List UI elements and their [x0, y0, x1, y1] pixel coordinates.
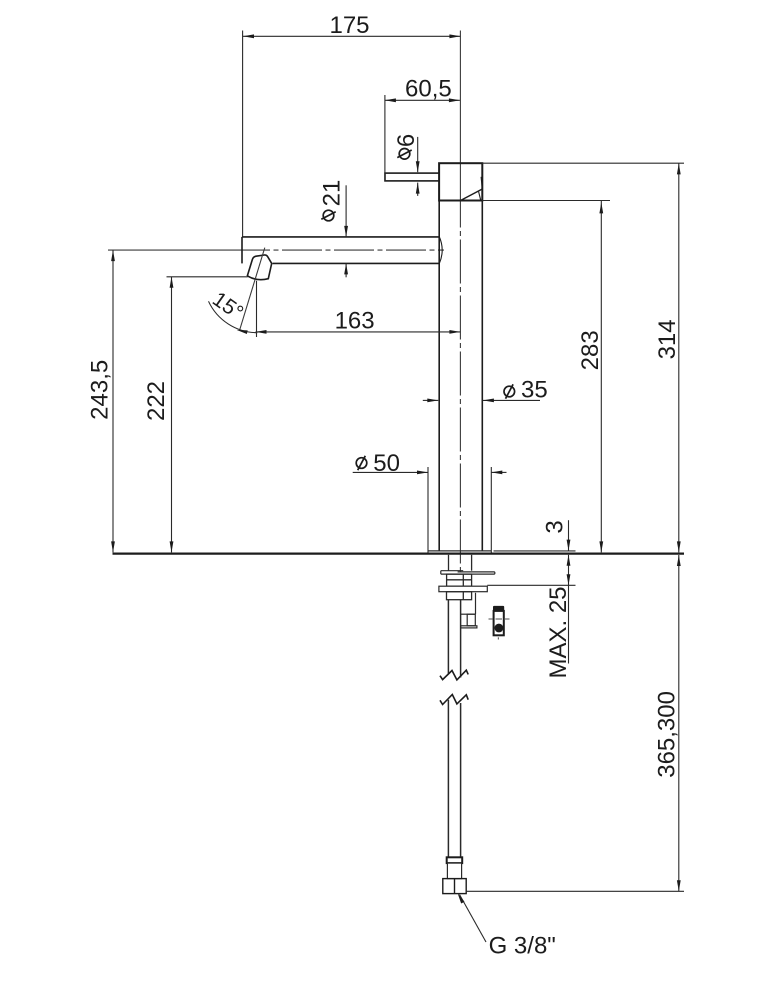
dimension 175	[243, 12, 461, 237]
head block U	[439, 163, 482, 200]
dimension diameter 21	[319, 180, 349, 278]
dimension 3	[494, 520, 576, 551]
mounting nut	[447, 574, 472, 586]
dimension 283	[482, 201, 610, 553]
dimension 60,5	[385, 75, 460, 181]
dimension 243,5	[87, 250, 115, 552]
aerator axis 15 deg line	[240, 248, 265, 331]
spout tube	[242, 237, 442, 264]
spout centerline	[108, 249, 444, 251]
hose end nut	[443, 879, 466, 894]
svg-text:163: 163	[335, 308, 375, 335]
angle 15 deg	[208, 288, 257, 334]
dimension diameter 35	[423, 376, 548, 403]
hose break zigzag upper	[440, 670, 468, 680]
countertop line	[113, 552, 685, 554]
supply hose lower	[448, 700, 460, 858]
svg-text:314: 314	[654, 319, 681, 359]
faucet vertical centerline	[459, 31, 461, 574]
dimension 222	[143, 277, 248, 553]
hose break zigzag lower	[440, 695, 468, 705]
body column	[439, 201, 482, 551]
svg-text:21: 21	[319, 180, 346, 207]
dimension 365,300	[466, 555, 684, 891]
svg-text:MAX. 25: MAX. 25	[545, 586, 572, 678]
horseshoe washer	[441, 571, 495, 574]
hose ferrule	[447, 857, 463, 863]
lock nut	[447, 592, 472, 600]
hose neck	[447, 863, 461, 879]
supply hose upper	[448, 600, 460, 678]
label G 3/8"	[456, 892, 556, 960]
svg-text:G 3/8": G 3/8"	[489, 933, 556, 960]
dimension 314	[482, 163, 684, 552]
handle lever	[385, 173, 439, 181]
svg-text:60,5: 60,5	[405, 75, 452, 102]
dimension MAX. 25	[487, 555, 575, 679]
dimension 163	[256, 281, 461, 337]
svg-text:365,300: 365,300	[654, 691, 681, 778]
svg-text:175: 175	[329, 12, 369, 39]
clamp plate	[439, 586, 487, 592]
aerator tip	[247, 255, 271, 280]
svg-text:243,5: 243,5	[87, 360, 114, 420]
svg-text:6: 6	[393, 134, 420, 147]
second hose fitting	[461, 593, 477, 628]
svg-text:3: 3	[542, 520, 569, 533]
base flange	[428, 467, 491, 555]
svg-text:283: 283	[577, 330, 604, 370]
threaded shank	[449, 555, 472, 571]
svg-text:35: 35	[521, 376, 548, 403]
svg-text:50: 50	[373, 450, 400, 477]
dimension diameter 50	[353, 450, 507, 477]
fixing stud icon	[489, 606, 510, 640]
svg-text:222: 222	[143, 381, 170, 421]
dimension diameter 6	[393, 134, 420, 196]
